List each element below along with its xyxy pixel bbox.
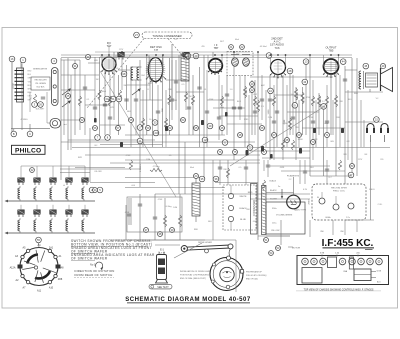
leader to note bbox=[243, 271, 245, 273]
svg-text:A12A: A12A bbox=[10, 267, 16, 270]
wire vertical fill bbox=[344, 220, 346, 235]
svg-text:BLU BLK: BLU BLK bbox=[37, 87, 46, 89]
inductor row2 unit1 bbox=[18, 220, 20, 231]
capacitor fill bbox=[218, 167, 222, 169]
resistor fill bbox=[184, 92, 187, 102]
wire vertical run bbox=[335, 60, 337, 176]
svg-text:2A1: 2A1 bbox=[49, 247, 54, 250]
wire horizontal run bbox=[125, 159, 260, 161]
callout 37 bbox=[144, 228, 149, 233]
wire tube V1 top lead bbox=[108, 45, 110, 58]
resistor bbox=[191, 95, 194, 105]
svg-text:BLK: BLK bbox=[127, 111, 131, 113]
wire row2 feed bbox=[52, 205, 54, 210]
callout 44 bbox=[340, 59, 346, 65]
svg-text:No 1: No 1 bbox=[90, 263, 96, 267]
tube pin stubs at 156,69 bbox=[146, 77, 166, 84]
wire horizontal run bbox=[125, 187, 225, 189]
wire vertical run bbox=[269, 75, 271, 160]
wire horizontal fill bbox=[127, 84, 150, 86]
wire vertical fill bbox=[70, 75, 72, 150]
lug BLACK bbox=[228, 205, 233, 210]
svg-text:.05 Mmf: .05 Mmf bbox=[259, 46, 267, 48]
resistor fill bbox=[164, 118, 167, 128]
bus row 2 bbox=[8, 232, 95, 234]
callout 8 bbox=[105, 135, 111, 141]
wire upper bus bbox=[95, 51, 250, 53]
leader bbox=[357, 254, 359, 257]
callout 55 bbox=[36, 237, 42, 243]
wire horizontal run bbox=[250, 76, 333, 78]
callout 4 bbox=[51, 58, 57, 64]
callout 18 bbox=[121, 71, 127, 77]
wire bbox=[46, 92, 48, 112]
svg-text:POSITION AT LOW FREQUENCY: POSITION AT LOW FREQUENCY bbox=[180, 274, 211, 277]
svg-text:470K: 470K bbox=[303, 96, 305, 101]
callout 59 bbox=[146, 126, 151, 131]
wire horizontal fill bbox=[345, 69, 357, 71]
callout 47 bbox=[348, 172, 354, 178]
callout 27 bbox=[134, 32, 140, 38]
wire row1 feed bbox=[84, 166, 86, 177]
wire row1 feed bbox=[36, 166, 38, 177]
resistor 1 meg bbox=[294, 88, 297, 100]
wire vertical run bbox=[175, 60, 177, 110]
callout 67 bbox=[272, 133, 277, 138]
wire horizontal fill bbox=[287, 111, 319, 113]
wire top bus bbox=[61, 54, 352, 56]
wire horizontal run bbox=[345, 91, 383, 93]
wire to pilot bbox=[11, 128, 50, 130]
capacitor fill bbox=[156, 111, 160, 113]
wire vertical run bbox=[282, 75, 284, 160]
wire vertical fill bbox=[188, 75, 190, 135]
callout 29 bbox=[193, 53, 199, 59]
inductor row1 unit5 bbox=[82, 188, 84, 199]
callout 36 bbox=[213, 176, 219, 182]
callout 28 bbox=[287, 68, 293, 74]
wire right of speaker bbox=[235, 240, 237, 292]
callout 61 bbox=[110, 96, 116, 102]
wire tube side lead bbox=[270, 55, 272, 67]
tube socket 5 top view bbox=[349, 258, 356, 265]
callout 24 bbox=[194, 174, 199, 179]
svg-text:470K: 470K bbox=[306, 97, 311, 99]
wire vertical fill bbox=[347, 90, 349, 160]
terminal hatched strip bbox=[262, 186, 267, 235]
wire horizontal run bbox=[100, 56, 180, 58]
capacitor fill bbox=[205, 111, 209, 113]
antenna matching box bbox=[31, 77, 50, 90]
wire vertical fill bbox=[326, 160, 328, 184]
wire vertical fill bbox=[218, 75, 220, 140]
callout 31 bbox=[73, 64, 78, 69]
underline note2 bbox=[71, 245, 148, 247]
trimmer row1 unit4 bbox=[66, 178, 72, 185]
tube socket 1 top view bbox=[302, 258, 309, 265]
svg-text:BLU: BLU bbox=[237, 101, 241, 103]
wire left vertical bbox=[11, 62, 13, 135]
wire vertical run bbox=[351, 58, 353, 176]
wire vertical fill bbox=[261, 75, 263, 120]
resistor fill bbox=[325, 96, 328, 106]
wire vertical fill bbox=[332, 220, 334, 235]
svg-text:LOOP: LOOP bbox=[13, 82, 15, 89]
lug b bbox=[333, 204, 339, 210]
callout 30 bbox=[86, 55, 91, 60]
resistor fill bbox=[311, 96, 314, 106]
svg-text:SEE TEXT: SEE TEXT bbox=[157, 286, 169, 289]
wire vertical run bbox=[146, 55, 148, 135]
svg-text:BLACK: BLACK bbox=[270, 180, 277, 183]
capacitor bbox=[275, 111, 279, 113]
long diagonal wire right bbox=[230, 106, 325, 166]
capacitor fill bbox=[238, 107, 242, 109]
wire vertical run bbox=[302, 87, 304, 135]
svg-text:6BV: 6BV bbox=[94, 60, 98, 62]
dial drive lever bbox=[181, 244, 233, 253]
svg-text:RED: RED bbox=[354, 93, 359, 95]
svg-text:470K: 470K bbox=[209, 99, 214, 101]
wire row2 feed bbox=[36, 205, 38, 210]
callout 71 bbox=[325, 133, 330, 138]
wire vertical fill bbox=[63, 60, 65, 135]
svg-text:B: B bbox=[13, 132, 15, 136]
capacitor fill bbox=[170, 99, 174, 101]
wire vertical fill bbox=[265, 90, 267, 147]
wire vertical run bbox=[89, 128, 91, 182]
tube socket 8 top view bbox=[376, 258, 383, 265]
wire vertical fill bbox=[142, 90, 144, 147]
svg-text:WHITE: WHITE bbox=[239, 196, 247, 198]
lug a bbox=[319, 198, 325, 204]
band switch segment bbox=[52, 68, 59, 106]
callout 5 bbox=[97, 187, 103, 193]
wire horizontal fill bbox=[166, 79, 186, 81]
trimmer row2 unit4 bbox=[66, 210, 72, 217]
underline note4 bbox=[71, 252, 95, 254]
wire bbox=[130, 198, 132, 225]
svg-text:1.0 Meg: 1.0 Meg bbox=[165, 206, 172, 208]
svg-text:6.3V: 6.3V bbox=[303, 189, 308, 191]
resistor avc bbox=[256, 100, 259, 112]
trimmer row1 unit5 bbox=[82, 178, 88, 185]
volume control rear circle bbox=[287, 195, 301, 209]
wire vertical run bbox=[130, 67, 132, 147]
wire horizontal fill bbox=[207, 99, 234, 101]
capacitor fill bbox=[272, 121, 276, 123]
wire horizontal fill bbox=[110, 239, 236, 241]
wire E1 lead bbox=[158, 252, 160, 255]
resistor fill bbox=[141, 118, 144, 128]
trimmer row1 unit3 bbox=[50, 178, 56, 185]
callout 50 bbox=[247, 145, 253, 151]
callout 51 bbox=[264, 238, 269, 243]
resistor fill bbox=[291, 140, 294, 150]
svg-text:117V: 117V bbox=[358, 159, 363, 161]
wire horizontal run bbox=[68, 139, 155, 141]
capacitor bbox=[127, 214, 131, 216]
wire vertical fill bbox=[185, 60, 187, 110]
wire vertical fill bbox=[239, 75, 241, 120]
condenser block vertical label strip bbox=[251, 184, 258, 235]
wire vertical run bbox=[356, 58, 358, 176]
2nd IF transformer coil bbox=[192, 183, 200, 216]
callout B bbox=[11, 131, 17, 137]
svg-text:FILAMENTS: FILAMENTS bbox=[287, 175, 300, 178]
svg-text:Mmf: Mmf bbox=[190, 167, 194, 169]
callout 3 bbox=[32, 102, 38, 108]
svg-text:FIELD: FIELD bbox=[369, 189, 375, 191]
leader bbox=[321, 254, 323, 258]
dashed leader to RF tuning section bbox=[87, 39, 144, 109]
wire vertical fill bbox=[206, 70, 208, 147]
wire horizontal fill bbox=[345, 219, 374, 221]
svg-text:YEL GREEN: YEL GREEN bbox=[35, 83, 46, 85]
wire row2 feed bbox=[20, 205, 22, 210]
wire vertical fill bbox=[227, 160, 229, 185]
lug BLUE bbox=[228, 216, 233, 221]
wire vertical fill bbox=[332, 100, 334, 135]
wire vertical fill bbox=[135, 80, 137, 135]
wire vertical run bbox=[370, 142, 372, 220]
wire bbox=[257, 194, 259, 240]
svg-text:INSTALLATION OF DRIVE LEVER: INSTALLATION OF DRIVE LEVER bbox=[180, 270, 212, 273]
junction dots top bus bbox=[101, 51, 339, 58]
callout 15 bbox=[374, 117, 380, 123]
svg-text:RED: RED bbox=[194, 229, 199, 231]
wire vertical fill bbox=[263, 160, 265, 171]
wire vertical fill bbox=[219, 160, 221, 185]
inductor row2 unit5 bbox=[82, 220, 84, 231]
wire vertical run bbox=[60, 58, 62, 180]
antenna loop terminal block bbox=[17, 68, 24, 102]
capacitor bbox=[103, 104, 107, 106]
wire long vertical x172 bbox=[171, 44, 173, 110]
wire vertical run bbox=[226, 75, 228, 135]
switch contact arrows bbox=[62, 88, 71, 95]
wire vertical run bbox=[257, 52, 259, 194]
tube socket 6 top view bbox=[358, 258, 365, 265]
callout 20 bbox=[185, 53, 191, 59]
wire vertical run bbox=[118, 75, 120, 135]
wire vertical fill bbox=[299, 160, 301, 184]
wire horizontal fill bbox=[302, 127, 345, 129]
callout 32 bbox=[30, 168, 35, 173]
capacitor bbox=[138, 204, 142, 206]
callout 43 bbox=[302, 79, 308, 85]
wire bbox=[179, 194, 181, 240]
trimmer osc tuning cap bbox=[183, 52, 189, 59]
callout 77 bbox=[262, 150, 267, 155]
inductor row1 unit2 bbox=[34, 188, 36, 199]
callout 34 bbox=[93, 188, 98, 193]
callout 7 bbox=[95, 135, 101, 141]
svg-text:OSC: OSC bbox=[141, 75, 146, 77]
wire vertical run bbox=[99, 57, 101, 135]
tube socket 2 top view bbox=[311, 258, 318, 265]
wire vertical run bbox=[151, 78, 153, 147]
direction of rotation symbol bbox=[90, 262, 103, 270]
svg-text:SCHEMATIC DIAGRAM MODEL 40-507: SCHEMATIC DIAGRAM MODEL 40-507 bbox=[125, 297, 251, 303]
callout 26 bbox=[38, 102, 44, 108]
callout 38 bbox=[158, 232, 163, 237]
callout 14 bbox=[266, 53, 272, 59]
callout 9 bbox=[292, 103, 298, 109]
callout 64 bbox=[181, 118, 186, 123]
wire vertical run bbox=[330, 74, 332, 135]
callout 60 bbox=[104, 96, 110, 102]
wire vertical run bbox=[192, 75, 194, 135]
wire row feeds bus bbox=[21, 165, 85, 167]
svg-text:TUNING CONDENSER: TUNING CONDENSER bbox=[152, 34, 181, 38]
wire horizontal run bbox=[155, 193, 310, 195]
wire horizontal fill bbox=[258, 235, 290, 237]
capacitor fill bbox=[325, 121, 329, 123]
wire tube side lead bbox=[148, 55, 150, 69]
wire horizontal fill bbox=[270, 165, 330, 167]
callout 35 bbox=[199, 176, 205, 182]
resistor tone bbox=[281, 140, 284, 150]
inductor row1 unit3 bbox=[50, 188, 52, 199]
wire vertical fill bbox=[273, 85, 275, 160]
dial opening square bbox=[302, 268, 322, 284]
wire vertical fill bbox=[304, 160, 306, 184]
underline note6 bbox=[71, 259, 95, 261]
callout 22 bbox=[240, 45, 245, 50]
wire vertical fill bbox=[356, 220, 358, 232]
wire vertical run bbox=[233, 52, 235, 160]
rectifier / speaker field coil dashed box bbox=[312, 184, 366, 220]
svg-text:RED BLK-WH: RED BLK-WH bbox=[35, 80, 48, 82]
svg-text:Mmf: Mmf bbox=[220, 107, 224, 109]
power transformer rect bbox=[354, 269, 371, 281]
trimmer arrow bbox=[231, 54, 239, 56]
wire row1 feed bbox=[68, 166, 70, 177]
wire vertical fill bbox=[245, 160, 247, 185]
wire vertical fill bbox=[360, 100, 362, 147]
callout 19 bbox=[207, 123, 213, 129]
svg-text:60Ma: 60Ma bbox=[325, 217, 331, 219]
resistor bbox=[288, 118, 291, 130]
callout 53 bbox=[276, 246, 281, 251]
capacitor avc bbox=[225, 94, 229, 96]
svg-text:7J7: 7J7 bbox=[154, 48, 159, 52]
wire tube side lead bbox=[221, 55, 223, 65]
svg-text:8Mf: 8Mf bbox=[340, 231, 344, 233]
svg-text:CONDENSER: CONDENSER bbox=[252, 200, 256, 217]
wire horizontal fill bbox=[281, 170, 345, 172]
arrow down to knob bbox=[281, 189, 283, 199]
capacitor bbox=[197, 87, 201, 89]
callout 12 bbox=[202, 137, 208, 143]
callout 45 bbox=[363, 63, 369, 69]
volume control body box bbox=[266, 202, 305, 234]
lug c bbox=[348, 203, 354, 209]
wire vertical fill bbox=[326, 85, 328, 147]
callout 11 bbox=[137, 138, 143, 144]
callout 2 bbox=[89, 187, 95, 193]
wire vertical fill bbox=[149, 57, 151, 100]
capacitor fill bbox=[311, 121, 315, 123]
svg-text:BLK: BLK bbox=[310, 167, 314, 169]
svg-text:7B7: 7B7 bbox=[214, 46, 219, 50]
svg-text:ALD: ALD bbox=[377, 281, 381, 284]
dashes under direction text bbox=[74, 277, 114, 279]
inductor osc coil bbox=[131, 67, 133, 80]
tube socket 4 top view bbox=[339, 258, 346, 265]
trimmer RF tuning cap bbox=[118, 52, 124, 59]
resistor bbox=[178, 215, 181, 227]
output terminal strip dashed box bbox=[223, 185, 256, 230]
wire tube side lead bbox=[338, 55, 340, 67]
caption underline bbox=[296, 290, 381, 292]
wire horizontal fill bbox=[61, 141, 255, 143]
svg-text:470K: 470K bbox=[246, 89, 248, 94]
wire vertical run bbox=[344, 66, 346, 184]
wire horizontal fill bbox=[274, 94, 302, 96]
svg-text:47 MEG: 47 MEG bbox=[21, 119, 28, 121]
tube socket 3 top view bbox=[320, 258, 327, 265]
svg-text:1.0MEG: 1.0MEG bbox=[297, 92, 299, 100]
svg-text:50?A: 50?A bbox=[377, 270, 382, 273]
wire horizontal fill bbox=[60, 168, 140, 170]
wire vertical fill bbox=[292, 75, 294, 135]
resistor bbox=[129, 160, 132, 170]
wire bbox=[321, 192, 323, 198]
wire vertical fill bbox=[298, 100, 300, 147]
svg-text:470K: 470K bbox=[309, 117, 314, 119]
wire vertical fill bbox=[121, 52, 123, 90]
dark tubular capacitors bbox=[246, 150, 249, 156]
svg-text:7B5: 7B5 bbox=[329, 49, 334, 53]
wire vertical run bbox=[184, 142, 186, 194]
wire bbox=[128, 198, 130, 225]
svg-text:280V: 280V bbox=[309, 199, 311, 205]
wire horizontal fill bbox=[213, 107, 245, 109]
svg-text:Mmf: Mmf bbox=[235, 39, 239, 41]
schematic title bbox=[125, 297, 251, 303]
tube pin stubs at 331,66.5 bbox=[323, 72, 339, 78]
svg-text:MOTOR: MOTOR bbox=[292, 248, 301, 250]
IF coil primary bbox=[232, 58, 239, 66]
wire bbox=[139, 194, 141, 240]
svg-text:7C6: 7C6 bbox=[275, 46, 280, 50]
tube V3 IF 7B7 bbox=[209, 59, 223, 73]
wire horizontal fill bbox=[155, 244, 180, 246]
svg-text:3.3: 3.3 bbox=[261, 106, 264, 108]
wire vertical run bbox=[289, 71, 291, 135]
svg-text:WH: WH bbox=[330, 141, 334, 143]
loudspeaker bbox=[381, 68, 393, 92]
leader bbox=[336, 254, 338, 257]
svg-text:.01Mf: .01Mf bbox=[297, 139, 302, 141]
dial lamp 1 bbox=[367, 124, 374, 133]
svg-text:1.0M: 1.0M bbox=[173, 207, 178, 209]
callout 13 bbox=[303, 59, 309, 65]
wire lever to cap bbox=[174, 243, 202, 258]
wire horizontal fill bbox=[176, 91, 204, 93]
wire vertical run bbox=[162, 55, 164, 147]
wire callout to switch bbox=[38, 243, 41, 248]
wire vertical run bbox=[251, 80, 253, 135]
callout 76 bbox=[218, 150, 223, 155]
wire horizontal fill bbox=[85, 104, 110, 106]
svg-text:END OF DIAL: END OF DIAL bbox=[246, 277, 258, 280]
wire horizontal fill bbox=[262, 157, 310, 159]
wire from callout 1 down bbox=[21, 64, 23, 131]
callout 52 bbox=[80, 118, 85, 123]
